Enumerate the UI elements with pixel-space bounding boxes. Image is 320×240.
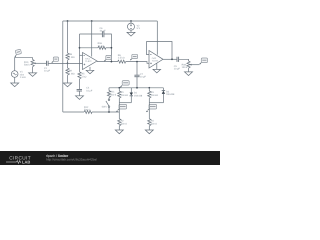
wire R1 bottom — [118, 98, 120, 103]
wire pot bottom — [32, 67, 34, 73]
svg-text:TL072: TL072 — [152, 60, 159, 63]
svg-text:C9: C9 — [174, 65, 178, 68]
svg-text:OA1: OA1 — [85, 58, 90, 61]
wire R8 to signal node — [67, 60, 69, 63]
wire R5 to C4 — [79, 79, 81, 89]
diode D2 — [162, 90, 165, 92]
potentiometer R10 (vertical) — [31, 60, 34, 67]
node dot feedback output join — [111, 47, 113, 49]
node dot C7 branch — [136, 61, 138, 63]
svg-text:R4: R4 — [151, 120, 155, 123]
op-amp OA2 triangle — [149, 51, 163, 69]
node tag out pointer — [199, 62, 202, 65]
resistor R11 (vertical 500k) — [107, 91, 110, 98]
wire switch to rail — [108, 107, 110, 112]
ground below V1 — [11, 83, 19, 87]
node tag cell2 box — [149, 104, 157, 109]
svg-text:C6: C6 — [100, 27, 104, 30]
ground below R9 — [63, 83, 71, 87]
svg-text:10 kΩ: 10 kΩ — [98, 45, 104, 48]
capacitor C9 plates — [176, 57, 178, 62]
node tag OA1out pointer — [104, 59, 107, 62]
svg-text:V2: V2 — [137, 24, 141, 27]
node tag mic pointer — [15, 55, 16, 57]
wire limiter top bus — [109, 87, 163, 89]
svg-text:10 µF: 10 µF — [86, 89, 93, 92]
capacitor C7 plates — [134, 74, 139, 76]
node dot V2 bus — [130, 20, 132, 22]
voltage source V2 plus minus marks — [130, 24, 132, 26]
wire D1 bottom — [130, 96, 132, 103]
svg-text:R2: R2 — [121, 120, 125, 123]
resistor R9 (vertical 1M) — [66, 68, 69, 75]
wire R06 branch right — [106, 47, 112, 49]
node dot OA1 feedback R junction — [79, 47, 81, 49]
svg-text:500 k: 500 k — [24, 64, 31, 67]
resistor R2 (vertical 500) — [118, 119, 121, 126]
svg-text:R6: R6 — [118, 54, 122, 57]
svg-text:1N4448: 1N4448 — [134, 94, 143, 97]
node tag bus pointer — [121, 85, 122, 86]
ground below R2 — [115, 130, 123, 134]
svg-text:10 µF: 10 µF — [140, 76, 147, 79]
ground below V2 — [127, 32, 135, 36]
node tag in pointer — [52, 60, 55, 63]
wire wiper to C1 — [37, 62, 46, 64]
wire R9 bottom lead — [67, 75, 69, 83]
svg-text:R11: R11 — [110, 91, 115, 94]
ground below R4 — [145, 130, 153, 134]
wire R3 bottom — [148, 98, 150, 103]
svg-text:500 Ω: 500 Ω — [84, 109, 91, 112]
node dot OA2 output feedback — [171, 58, 173, 60]
svg-text:C1: C1 — [44, 67, 48, 70]
svg-text:1 MΩ: 1 MΩ — [69, 56, 75, 59]
svg-text:500 k: 500 k — [110, 93, 117, 96]
resistor R06 (horizontal feedback) — [98, 46, 106, 49]
wire R11 to switch — [108, 98, 110, 99]
wire D2 bottom — [162, 94, 164, 103]
op-amp OA2 plus marker — [150, 62, 152, 64]
svg-text:TL072: TL072 — [85, 60, 92, 63]
capacitor C1 plates — [46, 61, 48, 66]
ground below C4 — [76, 96, 84, 100]
svg-text:1 MΩ: 1 MΩ — [69, 72, 75, 75]
svg-text:R06: R06 — [98, 42, 103, 45]
node dot signal bias — [67, 63, 69, 65]
wire OA2 output — [163, 58, 177, 60]
capacitor C6 plates — [101, 31, 103, 37]
resistor R12 (rail, horizontal) — [84, 111, 92, 114]
node tag cell1 pointer — [118, 109, 119, 110]
svg-text:R9: R9 — [69, 70, 73, 73]
footer bar — [0, 151, 220, 165]
svg-text:100 kΩ: 100 kΩ — [151, 94, 159, 97]
wire R2 bottom — [118, 126, 120, 130]
voltage source V2 circle — [128, 23, 135, 30]
node dot bus cell1 — [118, 87, 120, 89]
op-amp OA1 inverting input stub — [80, 54, 83, 56]
resistor R6 (series 1.5k) — [118, 60, 126, 63]
node tag OA1out box — [106, 55, 111, 59]
wire OA1 feedback left vertical — [79, 34, 81, 72]
op-amp OA2 minus marker — [150, 54, 152, 56]
svg-text:10 µF: 10 µF — [44, 70, 51, 73]
ground below R10 — [29, 73, 37, 77]
svg-text:SW1: SW1 — [102, 106, 108, 109]
wire cell1 upper vertical — [118, 88, 120, 91]
svg-text:1N4448: 1N4448 — [166, 93, 175, 96]
node tag out box — [201, 58, 207, 63]
resistor R1 (vertical 100k) — [118, 91, 121, 98]
wire wiper to out tag — [193, 64, 199, 66]
node dot switch rail — [108, 111, 110, 113]
wire node to R9 — [67, 63, 69, 68]
wire OA2 Vplus pin — [156, 21, 158, 55]
op-amp OA1 minus marker — [83, 54, 85, 56]
wire cell2 upper vertical — [148, 88, 150, 91]
svg-text:R08: R08 — [182, 63, 187, 66]
svg-text:sine: sine — [20, 73, 25, 76]
node dot bus C7 — [136, 87, 138, 89]
switch SW1 — [108, 99, 110, 101]
potentiometer R08 (vertical) — [187, 61, 190, 68]
diode D1 — [130, 93, 133, 96]
resistor R5 (1k to C4) — [78, 72, 81, 79]
resistor R4 (vertical 500) — [148, 119, 151, 126]
wire OA1 output — [97, 61, 118, 63]
wire left V+ drop to bottom rail — [62, 21, 64, 112]
wire C1 to op-amp input — [48, 62, 82, 64]
potentiometer R08 wiper arrow — [191, 64, 193, 66]
wire C6 branch left — [80, 33, 103, 35]
node dot bus cell2 — [148, 87, 150, 89]
svg-text:100 kΩ: 100 kΩ — [121, 94, 129, 97]
capacitor C4 plates — [77, 89, 82, 91]
svg-text:C4: C4 — [86, 87, 90, 90]
node dot OA1 Vplus bus — [91, 20, 93, 22]
svg-text:500 Ω: 500 Ω — [121, 122, 128, 125]
wire V1 bottom lead — [14, 77, 16, 83]
svg-text:100 k: 100 k — [182, 66, 189, 69]
wire V2 bottom lead — [130, 30, 132, 32]
svg-text:V1: V1 — [20, 71, 24, 74]
resistor R3 (vertical 100k) — [148, 91, 151, 98]
wire V1 top to corner — [15, 58, 33, 71]
node tag mic box — [15, 49, 21, 55]
wire OA1 Vminus pin — [89, 67, 91, 70]
svg-text:9 V: 9 V — [137, 27, 141, 30]
svg-text:10 µF: 10 µF — [100, 30, 107, 33]
svg-text:OA2: OA2 — [152, 57, 157, 60]
wire cell2 bottom bus — [149, 102, 163, 104]
svg-text:R3: R3 — [151, 91, 155, 94]
voltage source V2 lead top — [130, 21, 132, 23]
op-amp OA1 plus marker — [84, 63, 86, 65]
wire R8 top lead — [67, 21, 69, 53]
svg-text:R8: R8 — [69, 53, 73, 56]
node dot OA1 output feedback — [111, 61, 113, 63]
node dot bias divider top — [67, 20, 69, 22]
wire OA1 Vplus pin — [91, 21, 93, 57]
op-amp OA1 triangle — [83, 53, 98, 70]
wire V+ top bus — [63, 20, 158, 22]
wire pot R08 bottom — [188, 68, 190, 72]
wire OA2 Vminus pin — [156, 63, 158, 69]
footer CircuitLab logo — [6, 156, 31, 165]
svg-text:http://circuitlab.com/c/6c35au: http://circuitlab.com/c/6c35auvk42ba/ — [46, 158, 97, 162]
svg-text:1 kHz: 1 kHz — [20, 76, 27, 79]
svg-text:500 Ω: 500 Ω — [151, 122, 158, 125]
svg-text:1 kΩ: 1 kΩ — [82, 75, 87, 78]
svg-text:D1: D1 — [134, 92, 138, 95]
svg-text:R1: R1 — [121, 91, 125, 94]
voltage source V1 circle — [11, 71, 18, 78]
svg-text:R12: R12 — [84, 106, 89, 109]
wire R4 bottom — [148, 126, 150, 130]
wire R6 to OA2 — [126, 62, 149, 64]
wire C7 branch upper — [136, 62, 138, 76]
wire C6 branch right — [104, 34, 111, 62]
node tag in box — [53, 57, 58, 61]
wire R11 top lead — [108, 88, 110, 91]
wire bottom rail left segment — [63, 111, 84, 113]
wire D2 upper vertical — [162, 88, 164, 91]
wire cell2 lower vertical — [148, 103, 150, 119]
svg-text:C7: C7 — [140, 73, 144, 76]
svg-text:10 µF: 10 µF — [174, 68, 181, 71]
wire R06 branch left — [80, 47, 98, 49]
node tag bus box — [122, 81, 129, 86]
ground below OA1 — [86, 70, 94, 74]
wire D1 upper vertical — [130, 88, 132, 93]
node tag cell1 box — [119, 104, 127, 109]
node tag mid box — [132, 54, 138, 58]
voltage source V1 sine — [13, 73, 17, 75]
svg-text:1.5 kΩ: 1.5 kΩ — [118, 57, 125, 60]
ground below R08 — [185, 72, 193, 76]
resistor R8 (vertical 1M) — [66, 53, 69, 60]
svg-text:R10: R10 — [24, 61, 29, 64]
potentiometer R10 wiper arrow — [35, 62, 37, 64]
ground below OA2 — [153, 69, 161, 73]
wire bottom rail right segment — [92, 111, 119, 113]
wire C4 bottom lead — [79, 91, 81, 96]
svg-text:LAB: LAB — [22, 160, 30, 165]
wire cell1 bottom bus — [119, 102, 131, 104]
wire OA2 feedback loop — [147, 42, 172, 60]
svg-text:R5: R5 — [82, 73, 86, 76]
node tag mid pointer — [130, 58, 133, 61]
svg-text:D2: D2 — [166, 90, 170, 93]
node tag cell2 pointer — [148, 109, 149, 110]
wire C7 branch lower — [136, 77, 138, 88]
wire cell1 lower vertical — [118, 103, 120, 119]
wire C9 to pot — [179, 59, 189, 61]
